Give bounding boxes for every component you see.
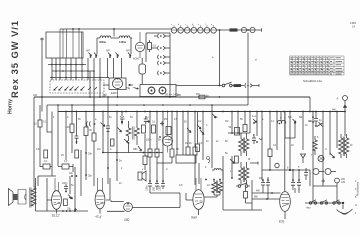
lamp M3 <box>325 169 331 175</box>
resistor R19 <box>245 187 247 191</box>
wire x66 <box>65 112 67 161</box>
svg-text:5n: 5n <box>109 116 112 119</box>
svg-text:Horny: Horny <box>8 99 14 114</box>
wire x284 tube top <box>284 112 286 192</box>
svg-text:6: 6 <box>317 136 319 139</box>
socket circle <box>275 163 279 167</box>
svg-text:1M: 1M <box>185 142 188 145</box>
svg-text:5n: 5n <box>71 184 74 187</box>
svg-text:EL12: EL12 <box>52 214 60 218</box>
svg-text:1M: 1M <box>225 120 228 123</box>
svg-text:b: b <box>67 116 69 119</box>
cap C22 <box>291 170 295 190</box>
wire x94 + resistor R7 <box>93 97 95 133</box>
resistor R13 <box>194 112 196 148</box>
wire x250 <box>249 112 251 134</box>
marks row y141 <box>206 140 228 143</box>
choke L5 winding <box>339 134 344 158</box>
choke core <box>343 137 344 157</box>
bus C y111.5 main <box>58 111 345 113</box>
svg-text:b: b <box>205 166 207 169</box>
svg-text:az: az <box>216 140 219 143</box>
svg-text:100n: 100n <box>62 182 68 185</box>
svg-text:AF7: AF7 <box>106 50 111 53</box>
svg-text:25n: 25n <box>88 153 93 156</box>
svg-text:n5: n5 <box>104 94 107 97</box>
connector pair P1 <box>154 34 170 38</box>
svg-text:8: 8 <box>287 167 289 170</box>
band switch dashed box <box>50 80 104 93</box>
cap C11 <box>106 97 110 133</box>
wire x257 <box>256 112 258 137</box>
components row y125 mid <box>142 125 146 133</box>
step wire x285 <box>285 112 295 139</box>
svg-text:5n: 5n <box>119 160 122 163</box>
svg-text:10: 10 <box>207 184 210 187</box>
extra labels sprinkle <box>36 111 353 188</box>
svg-text:netz: netz <box>306 207 311 210</box>
tube U1 mixer <box>135 42 144 51</box>
arrow node c <box>293 119 297 123</box>
wire y133 T3 top <box>228 132 250 134</box>
pot arrow V1 <box>68 195 73 200</box>
cap C23 <box>297 170 301 190</box>
resistor R3 <box>43 164 50 169</box>
svg-text:9um: 9um <box>191 216 198 220</box>
capacitor C10 <box>75 112 79 145</box>
cap C14 <box>148 181 152 193</box>
wire x290 <box>289 112 291 171</box>
wire T2 bottom <box>204 195 221 197</box>
right margin vertical text <box>355 180 360 215</box>
svg-text:100: 100 <box>33 94 38 97</box>
input jack arcs <box>86 122 90 127</box>
svg-text:f: f <box>205 24 206 26</box>
mark node d <box>309 120 312 122</box>
speaker <box>9 189 14 206</box>
node row 1 <box>48 64 86 66</box>
coil small L3 <box>207 157 210 163</box>
loop pair node b <box>277 120 285 123</box>
resistor R17 <box>269 112 271 150</box>
phono sockets box TA <box>140 85 176 97</box>
bus D y203 <box>305 202 343 204</box>
tube V3 <box>193 190 204 210</box>
svg-text:1n: 1n <box>146 116 149 119</box>
trimmer arrows row <box>89 53 132 58</box>
lamp La1 <box>241 27 246 32</box>
terminal tick left <box>40 38 44 41</box>
IF transformer T2 winding a <box>212 180 217 196</box>
svg-text:Rex 35 GW V/1: Rex 35 GW V/1 <box>9 20 20 98</box>
svg-text:m: m <box>255 59 257 62</box>
svg-text:AF7: AF7 <box>86 50 91 53</box>
wire x163 + cap C16 <box>161 112 165 190</box>
tube V2 <box>95 190 105 209</box>
connector pair P4 <box>158 61 170 65</box>
wire y210 <box>223 209 262 211</box>
wire x212 <box>211 105 213 168</box>
cluster x250 y136 <box>252 134 256 144</box>
dial lamp chain <box>171 25 217 33</box>
diode arrow D2 <box>118 128 122 133</box>
wire x310 <box>309 170 311 186</box>
cap C12 <box>120 112 125 122</box>
svg-text:EAB C: EAB C <box>111 92 118 95</box>
transformer leads <box>34 178 36 211</box>
wire x177 <box>176 112 178 156</box>
lamp M2 <box>313 169 319 175</box>
label ACH1 <box>133 58 140 61</box>
svg-text:2: 2 <box>121 167 123 170</box>
connector pair P6 <box>244 83 247 87</box>
svg-text:0,1: 0,1 <box>271 120 275 123</box>
svg-text:0,1: 0,1 <box>43 121 47 124</box>
svg-text:25μ: 25μ <box>67 208 72 211</box>
wire L drops <box>97 29 131 54</box>
svg-text:0,5: 0,5 <box>36 148 40 151</box>
corner bus A to bus C <box>309 97 311 112</box>
svg-text:50: 50 <box>130 116 133 119</box>
svg-text:a: a <box>262 118 264 121</box>
svg-text:b: b <box>206 124 208 127</box>
arrow to tube <box>129 84 134 86</box>
svg-text:b: b <box>253 134 255 137</box>
svg-text:d: d <box>166 168 168 171</box>
bus A y97 <box>34 96 310 98</box>
svg-text:0,1: 0,1 <box>273 144 277 147</box>
wire antenna drop 2 <box>247 33 249 105</box>
svg-text:ACH1: ACH1 <box>133 58 140 61</box>
svg-text:0,5: 0,5 <box>179 184 183 187</box>
svg-text:500: 500 <box>152 186 155 191</box>
resistor R14 <box>197 112 199 145</box>
svg-text:5k: 5k <box>225 152 228 155</box>
svg-text:50: 50 <box>240 118 243 121</box>
cap 4n cluster <box>312 116 314 118</box>
pot arrow <box>230 159 235 164</box>
svg-text:180: 180 <box>124 218 130 222</box>
svg-text:2n: 2n <box>206 140 209 143</box>
tube V1 EL12 <box>52 191 62 210</box>
switch S2 <box>222 84 225 87</box>
svg-text:1460a: 1460a <box>119 41 127 44</box>
svg-text:14: 14 <box>352 25 355 29</box>
resistor R20 <box>230 28 238 31</box>
svg-text:AB1: AB1 <box>133 148 138 151</box>
lamp top circle <box>335 178 340 183</box>
T2 winding b <box>218 180 223 196</box>
wire x117 <box>116 112 118 153</box>
lamp M1 <box>318 156 324 162</box>
wire switch row y85.5 <box>176 85 222 87</box>
svg-text:30: 30 <box>89 129 92 132</box>
antenna terminal <box>343 96 348 101</box>
svg-text:4W: 4W <box>256 190 260 193</box>
svg-text:1M: 1M <box>97 148 100 151</box>
wire x72 + resistor R5 <box>71 105 73 124</box>
resistor R11 <box>171 112 173 150</box>
AVC arrow node a <box>253 119 257 123</box>
capacitor C5 <box>149 40 151 52</box>
wire x262 + cap C20 <box>261 112 263 181</box>
svg-text:f: f <box>311 154 312 157</box>
tuning gang box <box>46 32 83 58</box>
box filter <box>176 155 196 163</box>
svg-text:EX): EX) <box>279 220 284 224</box>
svg-text:0,2: 0,2 <box>64 160 68 163</box>
svg-text:1353: 1353 <box>350 21 356 25</box>
osc coil T1 core <box>132 127 134 140</box>
svg-text:b: b <box>178 24 180 26</box>
wires above bus left <box>42 39 122 112</box>
coil horizontal L4 <box>212 169 223 180</box>
svg-text:100n: 100n <box>145 185 148 191</box>
speaker frame loop <box>18 190 26 205</box>
svg-text:25n: 25n <box>88 175 93 178</box>
data table <box>290 56 345 75</box>
tube U3 <box>163 136 173 146</box>
wire comb below gang <box>52 58 100 80</box>
resistor box <box>235 156 239 163</box>
wire y186 <box>313 185 337 187</box>
node line y152.5 <box>103 152 163 154</box>
diode arrow D4 <box>138 146 142 151</box>
svg-text:50: 50 <box>225 140 228 143</box>
svg-text:a: a <box>212 56 214 59</box>
plus mark <box>322 179 326 183</box>
labels 25u <box>67 208 72 211</box>
svg-text:2k: 2k <box>189 142 192 145</box>
tube U2 EAB <box>109 78 126 90</box>
wire x238 <box>237 112 239 134</box>
svg-text:Ω: Ω <box>355 204 357 207</box>
resistor R4 <box>62 164 69 169</box>
cap C15 <box>155 181 159 190</box>
tube V4 <box>280 192 291 212</box>
resistor R16 <box>244 112 246 125</box>
svg-text:2n: 2n <box>119 182 122 185</box>
svg-text:50: 50 <box>158 139 161 142</box>
part number top right <box>350 21 356 29</box>
trimmer capacitor C6 <box>139 64 146 74</box>
svg-text:3n: 3n <box>305 124 308 127</box>
wire stubs above cluster <box>70 150 81 209</box>
resistor R12 <box>187 112 189 148</box>
choke L6 winding <box>344 134 349 158</box>
wires right block tops <box>313 112 345 204</box>
table text specks <box>290 58 342 74</box>
svg-text:Schaltbild 14a: Schaltbild 14a <box>303 79 322 83</box>
IF transformer T3 top windings <box>239 133 244 156</box>
svg-text:0,1: 0,1 <box>152 121 156 124</box>
stub wires near tube U2 <box>103 78 109 86</box>
resistor R2 <box>38 120 42 127</box>
svg-text:g: g <box>211 24 212 26</box>
resistor R8 <box>144 134 146 156</box>
T3 core <box>243 138 244 154</box>
caps cluster between tubes <box>64 184 68 191</box>
wire x223 long <box>222 156 224 210</box>
resistor R18 <box>64 199 68 206</box>
wire x86 + resistor R6 <box>85 112 87 128</box>
connector pair P2 <box>151 46 170 50</box>
node row 2 <box>52 70 94 72</box>
svg-text:100: 100 <box>66 126 71 129</box>
wire antenna drop 1 <box>219 30 221 86</box>
svg-text:8W: 8W <box>254 196 258 199</box>
diode arrow D1 <box>101 123 106 127</box>
wire x183 <box>182 112 184 156</box>
svg-text:AF7: AF7 <box>126 50 131 53</box>
svg-text:100n: 100n <box>146 139 152 142</box>
svg-text:Dr: Dr <box>350 144 353 147</box>
wire x58 <box>57 105 59 166</box>
svg-text:50: 50 <box>229 126 232 129</box>
svg-text:TA: TA <box>126 87 131 91</box>
wire x252 <box>251 180 253 210</box>
wire x40 <box>39 105 41 120</box>
svg-text:0,1: 0,1 <box>168 139 172 142</box>
wire x199 <box>198 163 200 184</box>
wire from chain <box>217 28 262 31</box>
osc coil T1 winding a <box>126 121 131 141</box>
output transformer core <box>30 188 31 208</box>
cap C24 <box>304 168 308 180</box>
connector pair P5 <box>158 71 170 75</box>
label TA <box>126 87 131 91</box>
svg-text:a: a <box>171 24 173 26</box>
svg-text:50: 50 <box>184 121 187 124</box>
speaker coupling symbol <box>138 171 146 181</box>
wire x203 <box>202 112 204 161</box>
switch contacts S1 <box>53 87 97 91</box>
node y176 <box>38 176 56 186</box>
resistor R2b <box>44 150 48 158</box>
svg-text:50n: 50n <box>299 116 304 119</box>
svg-text:A: A <box>337 97 339 101</box>
bus B y105 <box>47 104 248 106</box>
pot arrows <box>187 128 191 133</box>
svg-text:W: W <box>248 158 251 161</box>
svg-text:~E₂y: ~E₂y <box>95 215 102 219</box>
switch arrow <box>317 122 323 127</box>
svg-text:50n: 50n <box>288 116 293 119</box>
coil L2 <box>119 36 132 38</box>
svg-text:c: c <box>185 24 186 26</box>
ground symbol <box>337 205 353 214</box>
arrow right block <box>330 153 335 158</box>
T2 core <box>216 181 217 194</box>
svg-text:0,5: 0,5 <box>153 45 157 48</box>
svg-text:2: 2 <box>53 116 55 119</box>
trim arrows x214 <box>213 114 217 118</box>
stub y163 <box>250 162 258 165</box>
wire y193 <box>150 192 180 194</box>
svg-text:4900a: 4900a <box>99 41 107 44</box>
svg-text:2M: 2M <box>164 118 167 121</box>
resistor R21 <box>234 84 242 87</box>
box C11b <box>111 139 115 146</box>
svg-text:5: 5 <box>298 166 300 169</box>
svg-text:e: e <box>142 168 144 171</box>
oscillator coil L1 <box>97 36 119 38</box>
diode pot x303 <box>301 112 306 164</box>
switch S3 <box>238 185 241 188</box>
wire V2 right <box>106 178 110 200</box>
svg-text:125: 125 <box>341 181 346 184</box>
svg-text:10n: 10n <box>69 172 74 175</box>
lamp rectifier circle <box>124 203 133 212</box>
wire left drop x34 <box>33 97 35 187</box>
svg-text:220: 220 <box>177 94 182 97</box>
svg-text:0,3: 0,3 <box>199 142 203 145</box>
svg-text:25: 25 <box>61 154 64 157</box>
lamp La2 <box>250 27 255 32</box>
svg-text:e: e <box>198 24 200 26</box>
mains switch contacts <box>309 202 311 204</box>
osc coil T1 winding b <box>135 112 140 146</box>
output transformer winding <box>31 188 36 206</box>
title Rex 35 GW V/1 <box>8 20 21 114</box>
wire top bus y29 <box>60 28 172 30</box>
svg-text:0,1: 0,1 <box>44 160 48 163</box>
diode arrow D3 <box>124 139 128 143</box>
svg-text:100n: 100n <box>158 185 161 191</box>
FM block on bus A <box>199 95 205 99</box>
svg-text:50: 50 <box>78 118 81 121</box>
svg-text:50: 50 <box>176 148 179 151</box>
svg-text:4n: 4n <box>319 119 322 122</box>
svg-text:d: d <box>192 24 193 26</box>
connector pair P3 <box>158 55 170 59</box>
resistor R10 <box>156 112 158 150</box>
wire x232 <box>231 112 233 179</box>
wire x295 x300 drop <box>295 188 299 193</box>
wire y193 to tube <box>252 192 281 194</box>
svg-text:0,5: 0,5 <box>174 118 178 121</box>
antenna panel right rail <box>169 33 171 97</box>
table caption <box>303 79 322 83</box>
svg-text:1: 1 <box>355 212 357 215</box>
gang section wires <box>60 29 82 58</box>
wire x47 <box>47 105 52 132</box>
svg-text:a: a <box>110 148 112 151</box>
svg-text:10: 10 <box>291 144 294 147</box>
wire x277 <box>276 112 278 151</box>
svg-text:10: 10 <box>34 123 37 126</box>
resistor R5b <box>75 150 79 158</box>
svg-text:b+c: b+c <box>252 115 257 118</box>
svg-text:10n: 10n <box>214 116 219 119</box>
wire y199 to tube <box>252 198 280 200</box>
cap C21 <box>266 177 270 199</box>
bottom wire y211 <box>36 210 89 212</box>
svg-text:0,2: 0,2 <box>198 120 202 123</box>
node row 3 <box>50 77 104 79</box>
wire x281 <box>280 112 282 122</box>
T3 bottom windings <box>239 162 244 184</box>
antenna panel left rail <box>145 33 147 62</box>
svg-text:a: a <box>95 118 97 121</box>
svg-text:U: U <box>325 148 327 151</box>
resistor R9 <box>149 112 151 150</box>
wire x103 <box>102 112 104 153</box>
wire x52 <box>51 112 53 177</box>
coil L7 <box>313 136 317 155</box>
resistor R15 <box>236 112 238 128</box>
cap C13 <box>144 116 148 124</box>
